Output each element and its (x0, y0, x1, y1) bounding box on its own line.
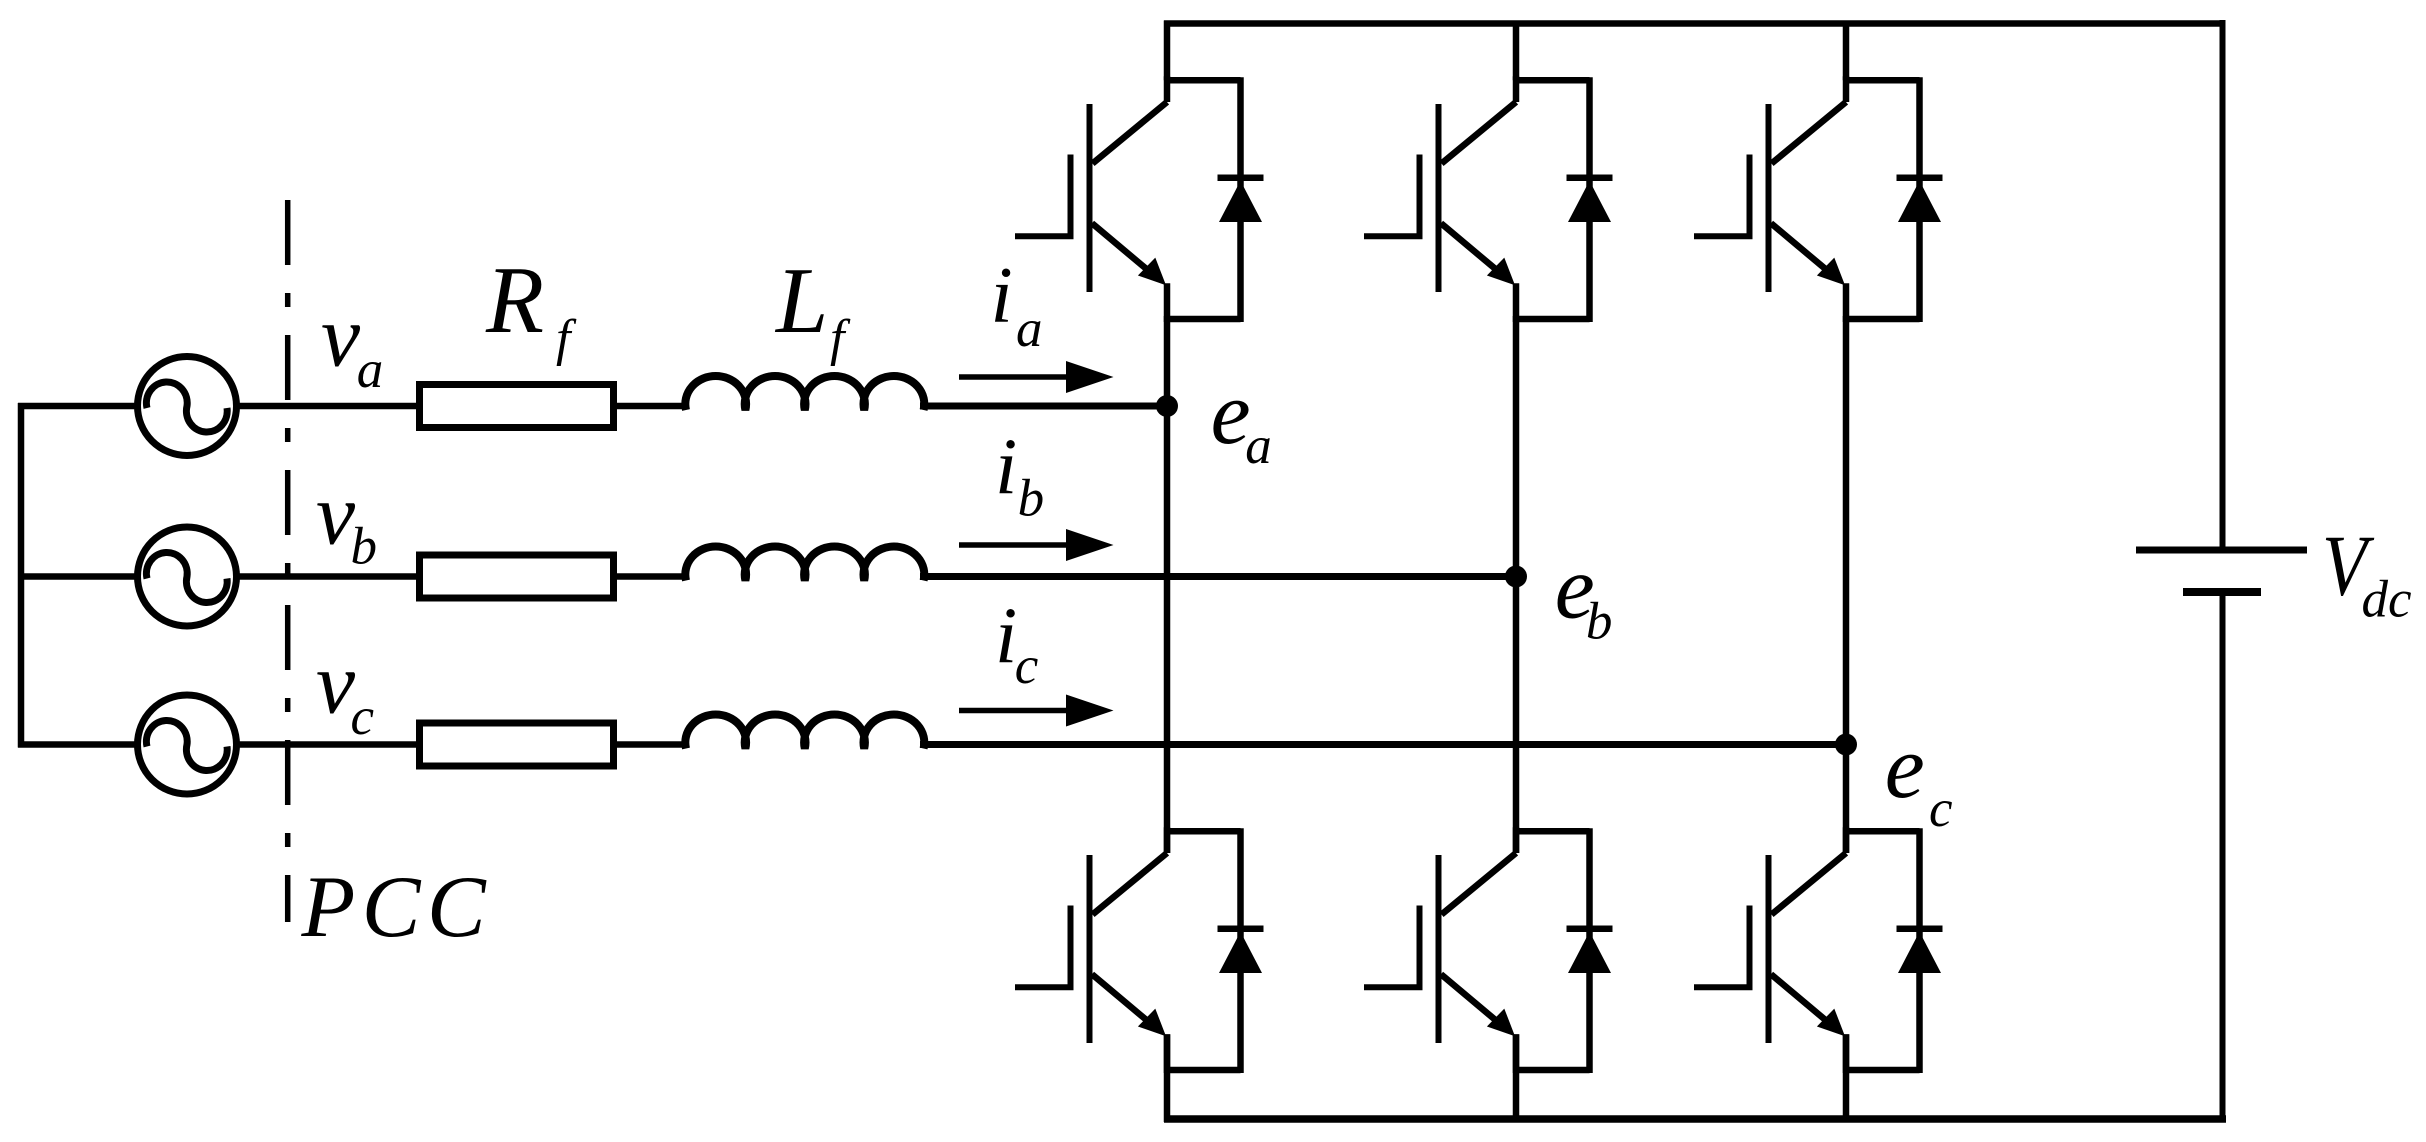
diode DQb1: anode-cathode wire (1586, 77, 1593, 322)
diode DQa2: anode-cathode wire (1237, 828, 1244, 1073)
battery Vdc: negative plate (short) (2183, 588, 2261, 596)
svg-text:R: R (485, 247, 544, 353)
wire: node ec to lower IGBT (1843, 745, 1850, 854)
diode DQb1: cathode bar (1567, 174, 1613, 181)
transistor Qc1: collector lead (1772, 102, 1847, 164)
diode DQc1: anode-cathode wire (1916, 77, 1923, 322)
wire: leg a upper-emitter to node ea (1164, 316, 1171, 406)
wire: Qb2 emitter-diode jog (1513, 1067, 1590, 1074)
wire: Qa2 collector-diode jog (1164, 828, 1241, 835)
wire: DC negative rail (bottom) (1164, 1115, 2226, 1123)
transistor Qb2: emitter lead with arrow (1441, 974, 1497, 1021)
svg-text:a: a (1016, 300, 1043, 358)
transistor Qa1: emitter lead with arrow (1092, 223, 1148, 270)
wire: Qa1 emitter-diode jog (1164, 316, 1241, 323)
wire: Qb2 collector stub (1513, 827, 1520, 853)
resistor Rf phase a (420, 385, 614, 428)
node ea junction dot (1156, 395, 1178, 417)
diode DQc2: anode-cathode wire (1916, 828, 1923, 1073)
svg-text:L: L (774, 249, 828, 353)
transistor Qa1: body bar (1087, 104, 1093, 292)
wire: Qc2 emitter-diode jog (1843, 1067, 1920, 1074)
svg-text:b: b (1018, 469, 1045, 527)
transistor Qa1: collector lead (1093, 102, 1168, 164)
wire: Qb1 collector-diode jog (1513, 77, 1590, 84)
svg-text:v: v (321, 289, 361, 386)
wire: resistor to inductor phase c (617, 741, 689, 748)
node ec junction dot (1835, 734, 1857, 756)
wire: ib line inductor to node eb (920, 573, 1516, 580)
AC source vc: sine wave (146, 720, 227, 770)
AC source va: circle (138, 357, 237, 456)
wire: Qb2 collector-diode jog (1513, 828, 1590, 835)
diode DQb2: anode-cathode wire (1586, 828, 1593, 1073)
svg-text:c: c (1015, 637, 1039, 695)
diode DQa2: cathode bar (1218, 925, 1264, 932)
wire: Qb1 emitter stub (1513, 283, 1520, 322)
wire: Qa2 emitter stub (1164, 1034, 1171, 1073)
diode DQc1: triangle (1898, 181, 1941, 222)
wire: leg b lower-emitter to bottom rail (1513, 1034, 1520, 1122)
inductor Lf phase c (685, 715, 924, 749)
wire: leg b top connection to rail (1513, 21, 1520, 81)
transistor Qb2: gate lead (1364, 984, 1423, 990)
wire: Qc2 emitter stub (1843, 1034, 1850, 1073)
AC source vc: circle (138, 695, 237, 794)
svg-text:i: i (991, 252, 1013, 340)
wire: Qb1 emitter-diode jog (1513, 316, 1590, 323)
diode DQc2: cathode bar (1897, 925, 1943, 932)
wire: leg c upper-emitter to node ec (1843, 316, 1850, 745)
wire: Qc2 collector stub (1843, 827, 1850, 853)
wire: right DC bus lower (2220, 592, 2226, 1123)
diode DQa1: triangle (1219, 181, 1262, 222)
wire: resistor to inductor phase b (617, 573, 689, 580)
transistor Qa2: emitter lead with arrow (1092, 974, 1148, 1021)
wire: left neutral bus (18, 403, 25, 748)
wire: ic line inductor to node ec (920, 741, 1846, 748)
diode DQc1: cathode bar (1897, 174, 1943, 181)
wire: Qa1 collector-diode jog (1164, 77, 1241, 84)
transistor Qc1: gate lead (1694, 233, 1753, 239)
diode DQb2: triangle (1568, 932, 1611, 973)
wire: resistor to inductor phase a (617, 403, 689, 410)
svg-text:a: a (1245, 417, 1272, 475)
transistor Qc2: emitter lead with arrow (1771, 974, 1827, 1021)
wire: Qc1 collector stub (1843, 76, 1850, 102)
transistor Qc2: gate bar (1747, 906, 1753, 989)
svg-text:f: f (830, 310, 851, 367)
inductor Lf phase a (685, 376, 924, 410)
wire: Qa2 emitter-diode jog (1164, 1067, 1241, 1074)
transistor Qc2: gate lead (1694, 984, 1753, 990)
transistor Qc2: collector lead (1772, 853, 1847, 915)
transistor Qa1: gate lead (1015, 233, 1074, 239)
svg-text:PCC: PCC (301, 859, 493, 956)
transistor Qa1: gate bar (1068, 155, 1074, 238)
arrow: current ic direction (959, 708, 1072, 714)
svg-text:b: b (351, 517, 378, 575)
wire: va to resistor (236, 403, 420, 410)
svg-text:b: b (1586, 593, 1613, 651)
transistor Qb2: collector lead (1442, 853, 1517, 915)
wire: Qc1 collector-diode jog (1843, 77, 1920, 84)
transistor Qa2: gate bar (1068, 906, 1074, 989)
node eb junction dot (1505, 566, 1527, 588)
svg-text:dc: dc (2362, 571, 2412, 629)
transistor Qc2: body bar (1766, 855, 1772, 1043)
wire: leg a top connection to rail (1164, 21, 1171, 81)
transistor Qb1: emitter lead with arrow (1441, 223, 1497, 270)
battery Vdc: positive plate (long) (2136, 547, 2307, 554)
transistor Qb2: gate bar (1417, 906, 1423, 989)
diode DQa2: triangle (1219, 932, 1262, 973)
wire: leg c lower-emitter to bottom rail (1843, 1034, 1850, 1122)
diode DQc2: triangle (1898, 932, 1941, 973)
AC source vb: sine wave (146, 552, 227, 602)
wire: source vb left stub (18, 573, 136, 580)
wire: Qb2 emitter stub (1513, 1034, 1520, 1073)
resistor Rf phase c (420, 723, 614, 766)
PCC boundary dash-dot line (285, 200, 291, 922)
svg-text:i: i (995, 424, 1017, 512)
wire: source va left stub (18, 403, 136, 410)
transistor Qb1: body bar (1436, 104, 1442, 292)
transistor Qb1: gate lead (1364, 233, 1423, 239)
wire: right DC bus upper (2220, 20, 2226, 550)
wire: leg a lower-emitter to bottom rail (1164, 1034, 1171, 1122)
svg-text:a: a (357, 341, 384, 399)
wire: Qb1 collector stub (1513, 76, 1520, 102)
svg-text:c: c (351, 688, 375, 746)
wire: DC positive rail (top) (1164, 20, 2226, 27)
transistor Qb2: body bar (1436, 855, 1442, 1043)
transistor Qa2: collector lead (1093, 853, 1168, 915)
wire: leg b upper-emitter to node eb (1513, 316, 1520, 577)
wire: node ea to lower IGBT (1164, 406, 1171, 853)
transistor Qc1: gate bar (1747, 155, 1753, 238)
wire: Qc2 collector-diode jog (1843, 828, 1920, 835)
inductor Lf phase b (685, 547, 924, 581)
diode DQa1: cathode bar (1218, 174, 1264, 181)
svg-text:e: e (1885, 718, 1925, 817)
wire: ia line inductor to node ea (920, 403, 1167, 410)
wire: Qc1 emitter stub (1843, 283, 1850, 322)
wire: source vc left stub (18, 741, 136, 748)
diode DQb1: triangle (1568, 181, 1611, 222)
diode DQb2: cathode bar (1567, 925, 1613, 932)
transistor Qb1: collector lead (1442, 102, 1517, 164)
wire: vc to resistor (236, 741, 420, 748)
diode DQa1: anode-cathode wire (1237, 77, 1244, 322)
resistor Rf phase b (420, 555, 614, 598)
AC source vb: circle (138, 527, 237, 626)
transistor Qc1: emitter lead with arrow (1771, 223, 1827, 270)
wire: node eb to lower IGBT (1513, 577, 1520, 854)
transistor Qa2: gate lead (1015, 984, 1074, 990)
wire: Qa1 collector stub (1164, 76, 1171, 102)
svg-text:c: c (1929, 780, 1953, 838)
wire: Qc1 emitter-diode jog (1843, 316, 1920, 323)
transistor Qb1: gate bar (1417, 155, 1423, 238)
wire: leg c top connection to rail (1843, 21, 1850, 81)
arrow: current ib direction (959, 542, 1072, 548)
arrow: current ia direction (959, 374, 1072, 380)
svg-text:f: f (556, 310, 577, 367)
wire: vb to resistor (236, 573, 420, 580)
AC source va: sine wave (146, 382, 227, 432)
transistor Qc1: body bar (1766, 104, 1772, 292)
transistor Qa2: body bar (1087, 855, 1093, 1043)
wire: Qa1 emitter stub (1164, 283, 1171, 322)
wire: Qa2 collector stub (1164, 827, 1171, 853)
